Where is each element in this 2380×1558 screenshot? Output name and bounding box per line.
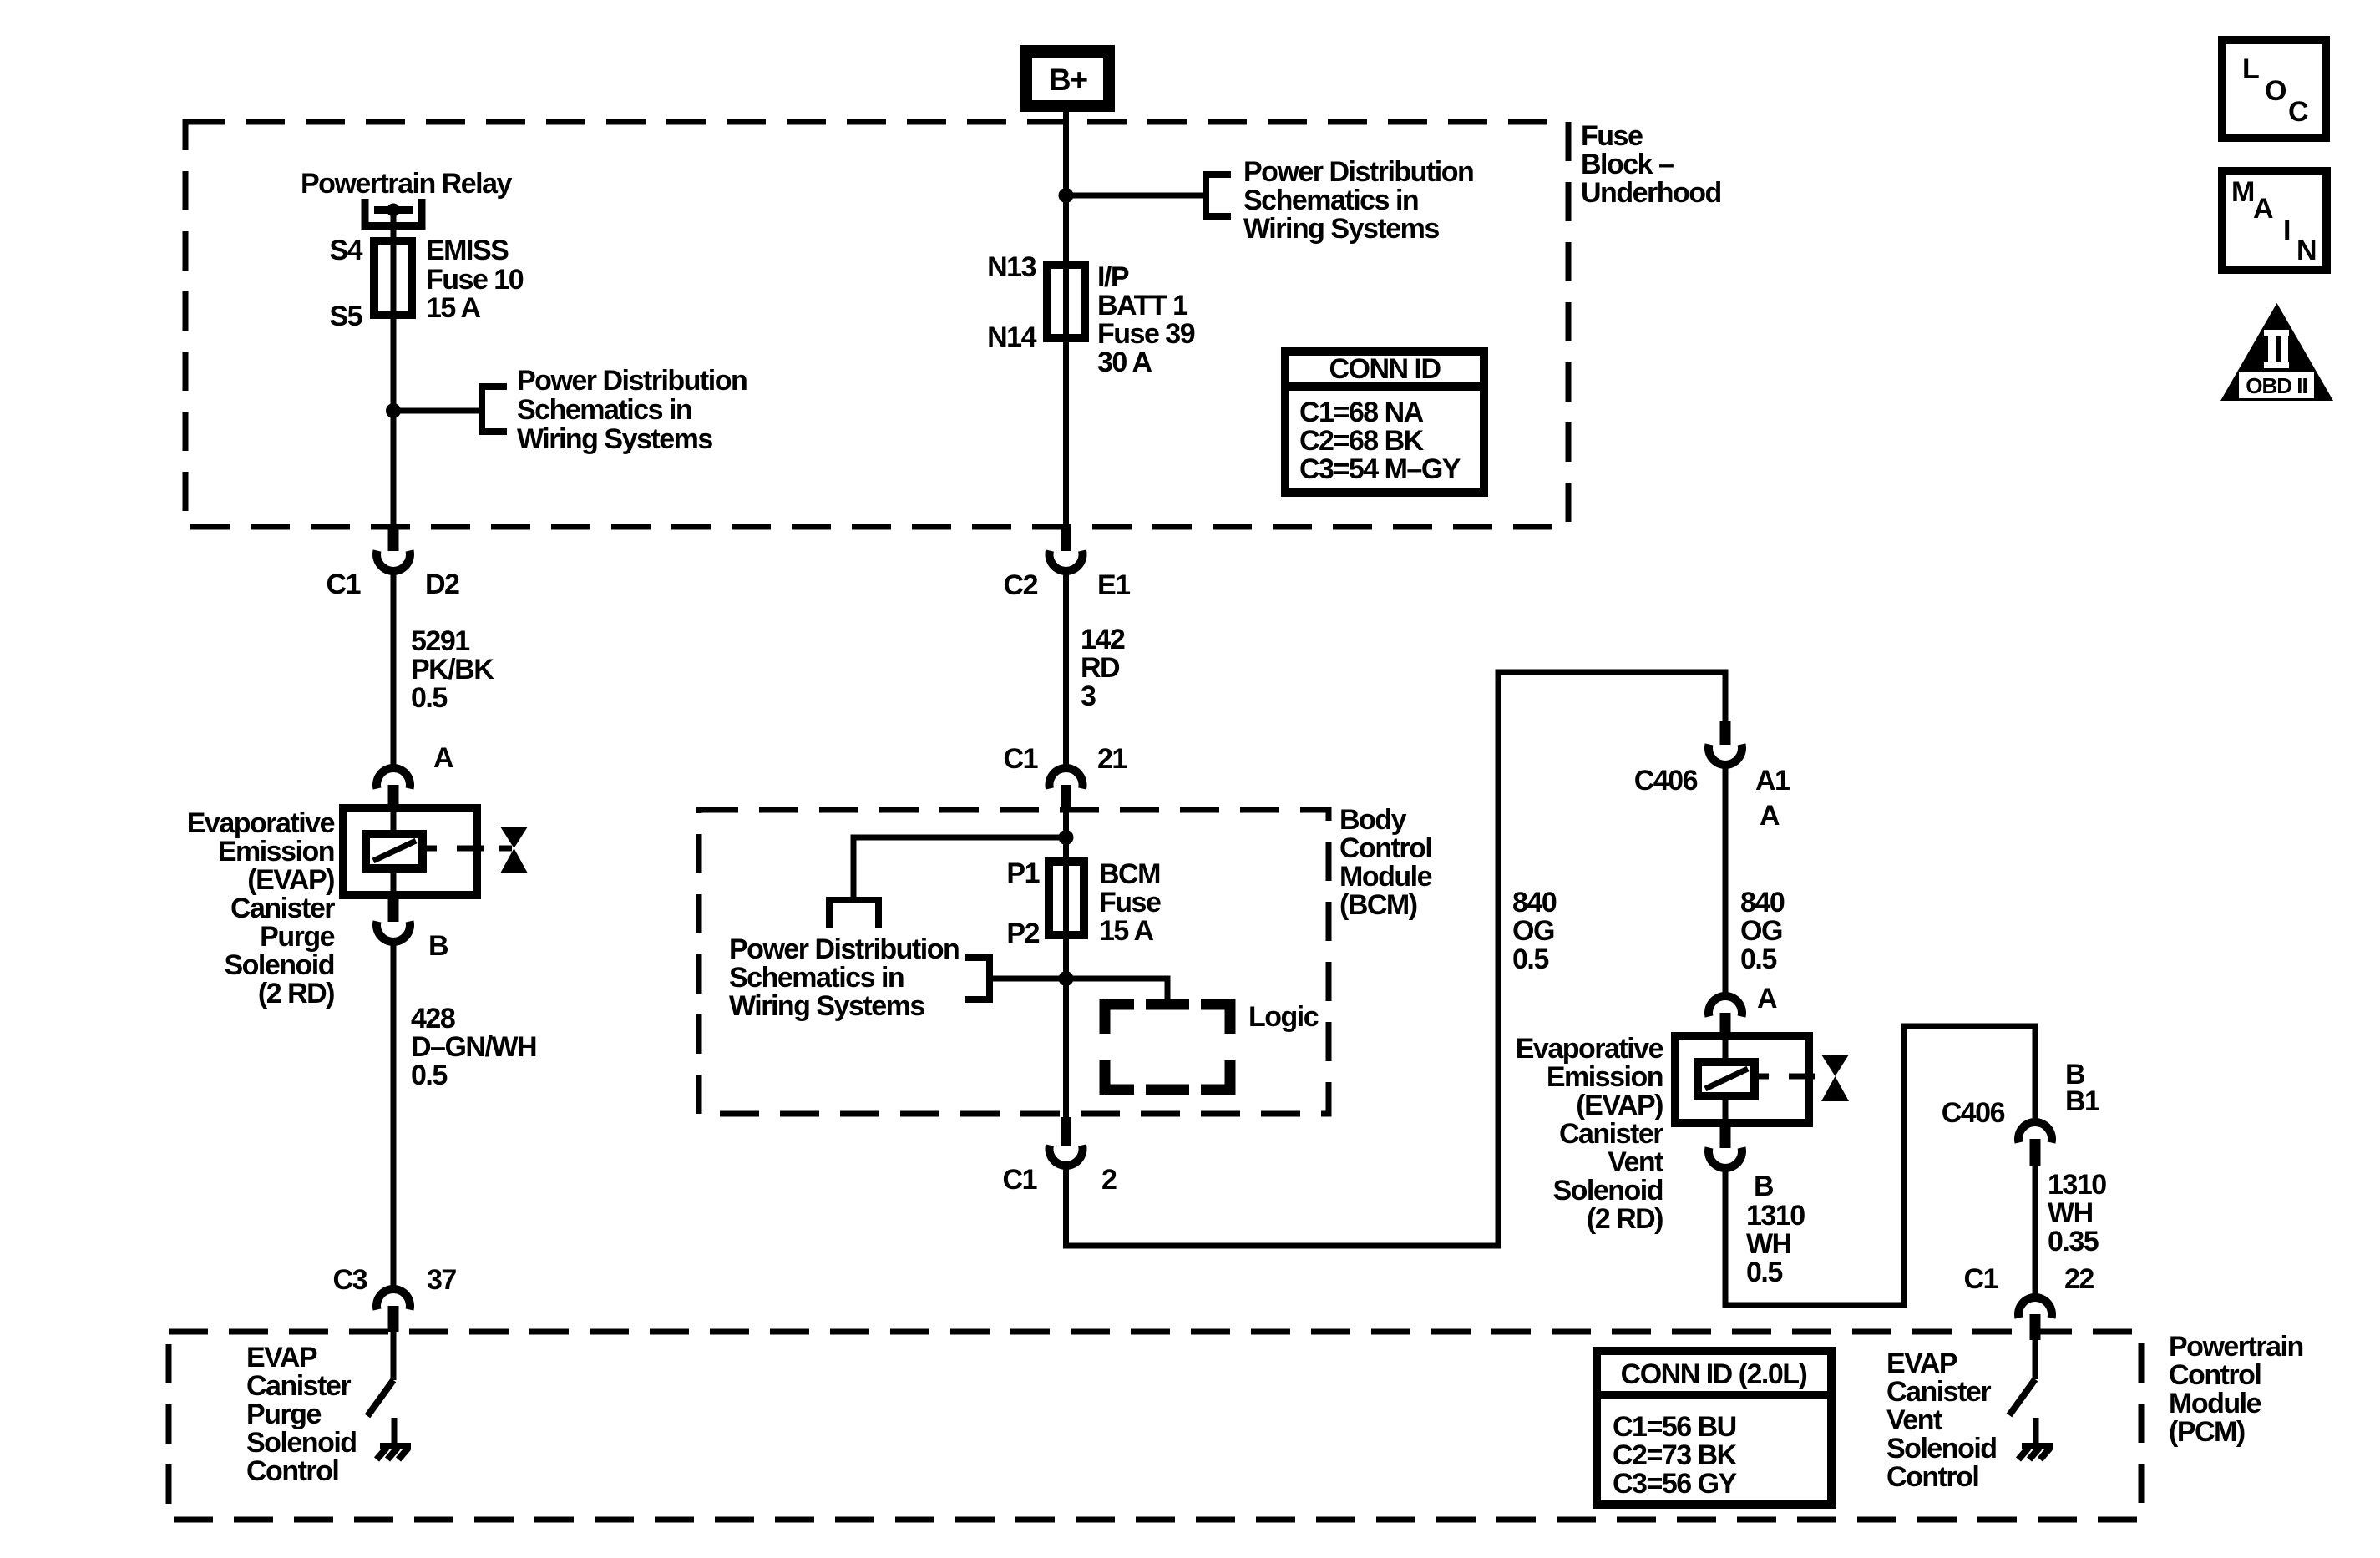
label wire 428 D-GN/WH 0.5 <box>411 1003 536 1091</box>
connector terminal A at purge solenoid <box>377 768 410 810</box>
connector C406 pin B1 <box>2018 1122 2052 1166</box>
svg-text:Fuse 10: Fuse 10 <box>426 264 524 296</box>
connector C406 pin A1 <box>1709 721 1742 765</box>
svg-text:Schematics in: Schematics in <box>729 962 904 994</box>
svg-text:Powertrain Relay: Powertrain Relay <box>301 168 512 200</box>
table CONN ID (2.0L) (PCM) <box>1597 1351 1831 1505</box>
svg-text:(EVAP): (EVAP) <box>1576 1090 1663 1121</box>
svg-text:C1: C1 <box>327 569 361 600</box>
svg-text:WH: WH <box>1746 1228 1791 1260</box>
svg-text:(BCM): (BCM) <box>1339 889 1417 921</box>
svg-text:Solenoid: Solenoid <box>224 949 334 981</box>
svg-text:Canister: Canister <box>230 893 335 924</box>
fork reference symbol (BCM internal) <box>829 897 879 928</box>
svg-text:A1: A1 <box>1755 765 1790 797</box>
svg-text:EVAP: EVAP <box>1886 1348 1957 1379</box>
svg-text:C: C <box>2288 96 2308 128</box>
svg-text:(2 RD): (2 RD) <box>258 978 334 1009</box>
svg-text:BATT 1: BATT 1 <box>1097 290 1187 321</box>
wire B+ to I/P fuse <box>1063 112 1069 524</box>
PCM box Powertrain Control Module <box>169 1332 2141 1520</box>
svg-text:N13: N13 <box>987 251 1036 283</box>
svg-text:A: A <box>1760 800 1780 832</box>
svg-text:CONN ID (2.0L): CONN ID (2.0L) <box>1621 1358 1807 1390</box>
svg-text:Control: Control <box>1886 1461 1978 1493</box>
label BCM Fuse 15 A <box>1099 858 1161 947</box>
switch EVAP Canister Vent Solenoid Control driver <box>2009 1340 2035 1415</box>
svg-text:Power Distribution: Power Distribution <box>1243 156 1473 188</box>
label Power Distribution Schematics in Wiring Systems (BCM) <box>729 933 959 1022</box>
connector terminal A at vent solenoid <box>1709 996 1742 1036</box>
svg-text:Canister: Canister <box>1559 1118 1663 1150</box>
label Body Control Module (BCM) <box>1339 804 1432 921</box>
wire 428 D-GN/WH 0.5 <box>391 940 397 1287</box>
svg-text:Module: Module <box>1339 861 1432 893</box>
svg-text:Wiring Systems: Wiring Systems <box>1243 213 1439 245</box>
svg-text:S5: S5 <box>329 301 362 332</box>
svg-text:0.5: 0.5 <box>1740 943 1776 975</box>
svg-text:RD: RD <box>1081 652 1120 684</box>
svg-text:C3=56 GY: C3=56 GY <box>1613 1468 1738 1500</box>
svg-text:BCM: BCM <box>1099 858 1160 890</box>
wire junction to off-page bracket (BCM) <box>990 976 1066 982</box>
label Powertrain Control Module (PCM) <box>2169 1331 2303 1448</box>
node junction below EMISS fuse <box>386 403 401 418</box>
switch EVAP Canister Purge Solenoid Control driver <box>367 1332 393 1416</box>
svg-text:37: 37 <box>427 1264 456 1296</box>
svg-text:A: A <box>1757 983 1777 1014</box>
wire 1310 WH 0.5 vent solenoid to C406 B1 <box>1725 1026 2035 1305</box>
svg-text:0.5: 0.5 <box>1512 943 1548 975</box>
svg-text:P1: P1 <box>1006 857 1039 889</box>
svg-text:Emission: Emission <box>1547 1061 1663 1093</box>
legend MAIN box <box>2222 171 2327 270</box>
svg-text:M: M <box>2231 176 2254 208</box>
svg-text:C1: C1 <box>1004 743 1038 775</box>
relay Powertrain Relay contact symbol <box>365 199 422 226</box>
svg-text:A: A <box>433 742 453 774</box>
svg-text:Wiring Systems: Wiring Systems <box>729 990 924 1022</box>
svg-text:0.35: 0.35 <box>2048 1226 2099 1257</box>
label EMISS Fuse 10 15 A <box>426 235 524 324</box>
svg-text:OBD II: OBD II <box>2246 373 2307 398</box>
off-page reference bracket (B+) <box>1206 171 1231 220</box>
ground (purge driver) <box>377 1418 411 1459</box>
svg-text:Solenoid: Solenoid <box>1552 1175 1663 1206</box>
svg-text:Power Distribution: Power Distribution <box>729 933 959 965</box>
label I/P BATT 1 Fuse 39 30 A <box>1097 261 1195 378</box>
svg-text:Solenoid: Solenoid <box>246 1427 357 1459</box>
connector C1 pin 21 into BCM <box>1050 768 1083 812</box>
svg-text:Canister: Canister <box>246 1370 351 1402</box>
svg-text:C3=54 M–GY: C3=54 M–GY <box>1299 453 1461 485</box>
solenoid EVAP Canister Vent Solenoid (2 RD) <box>1675 1036 1815 1123</box>
svg-text:428: 428 <box>411 1003 455 1034</box>
svg-text:Fuse: Fuse <box>1099 887 1161 918</box>
fuse block box Fuse Block - Underhood <box>185 122 1568 527</box>
wire BCM C1 2 to C406 A1 (840 OG) <box>1066 672 1726 1246</box>
connector C1 pin 22 into PCM <box>2018 1297 2052 1340</box>
svg-text:C2=68 BK: C2=68 BK <box>1299 425 1425 457</box>
svg-text:C1=56 BU: C1=56 BU <box>1613 1411 1736 1443</box>
connector C1 pin 2 below BCM <box>1050 1117 1083 1166</box>
svg-text:PK/BK: PK/BK <box>411 654 494 685</box>
wire junction to off-page bracket <box>393 408 482 414</box>
svg-text:1310: 1310 <box>1746 1200 1805 1232</box>
svg-text:Vent: Vent <box>1886 1404 1942 1436</box>
svg-text:0.5: 0.5 <box>1746 1257 1782 1288</box>
svg-text:(PCM): (PCM) <box>2169 1416 2245 1448</box>
svg-text:C1: C1 <box>1964 1263 1998 1295</box>
solenoid EVAP Canister Purge Solenoid (2 RD) <box>343 808 512 895</box>
svg-text:C2=73 BK: C2=73 BK <box>1613 1439 1738 1471</box>
svg-text:15 A: 15 A <box>1099 915 1154 947</box>
svg-text:I: I <box>2283 215 2290 246</box>
label wire 840 OG 0.5 (left run) <box>1512 887 1557 975</box>
svg-text:Powertrain: Powertrain <box>2169 1331 2303 1363</box>
svg-text:Purge: Purge <box>246 1399 321 1430</box>
svg-text:840: 840 <box>1512 887 1557 918</box>
label wire 840 OG 0.5 (right run) <box>1740 887 1785 975</box>
svg-text:Logic: Logic <box>1248 1001 1319 1033</box>
svg-text:B+: B+ <box>1049 63 1088 97</box>
svg-text:C2: C2 <box>1004 569 1038 601</box>
connector C1 pin D2 (purge circuit) <box>377 524 410 571</box>
svg-text:OG: OG <box>1512 915 1554 947</box>
svg-text:Wiring Systems: Wiring Systems <box>517 423 712 455</box>
svg-text:A: A <box>2253 193 2273 225</box>
svg-text:WH: WH <box>2048 1197 2093 1229</box>
svg-text:B: B <box>1754 1171 1774 1202</box>
fuse BCM Fuse 15 A <box>1049 862 1084 935</box>
svg-text:L: L <box>2242 53 2259 85</box>
BCM box Body Control Module <box>699 810 1329 1114</box>
valve symbol (vent solenoid) <box>1821 1055 1849 1101</box>
fuse EMISS Fuse 10 15 A <box>374 241 412 315</box>
node junction above BCM fuse <box>1059 830 1074 845</box>
off-page reference bracket (BCM) <box>965 954 990 1003</box>
svg-text:21: 21 <box>1097 743 1127 775</box>
svg-text:1310: 1310 <box>2048 1169 2106 1201</box>
node junction below B+ <box>1059 188 1074 203</box>
svg-text:D2: D2 <box>425 569 459 600</box>
fuse I/P BATT 1 Fuse 39 30 A <box>1047 265 1085 338</box>
svg-text:Vent: Vent <box>1608 1146 1663 1178</box>
wire 1310 WH 0.35 to PCM <box>2033 1166 2038 1295</box>
svg-text:N14: N14 <box>987 321 1036 353</box>
wire junction to off-page bracket (B+) <box>1066 193 1207 199</box>
label Fuse Block - Underhood <box>1581 120 1721 209</box>
ground (vent driver) <box>2018 1418 2053 1459</box>
svg-text:S4: S4 <box>329 235 362 266</box>
label Evaporative Emission (EVAP) Canister Purge Solenoid (2 RD) <box>187 807 336 1009</box>
svg-text:Module: Module <box>2169 1388 2261 1419</box>
svg-text:N: N <box>2296 235 2316 266</box>
svg-text:2: 2 <box>1101 1164 1117 1196</box>
connector terminal B below vent solenoid <box>1709 1123 1742 1168</box>
svg-text:P2: P2 <box>1006 918 1039 949</box>
connector terminal B below purge solenoid <box>377 895 410 942</box>
svg-text:Fuse 39: Fuse 39 <box>1097 318 1195 350</box>
svg-text:Canister: Canister <box>1886 1376 1991 1408</box>
power symbol B+ <box>1020 45 1115 112</box>
svg-text:22: 22 <box>2064 1263 2094 1295</box>
svg-text:Control: Control <box>1339 832 1431 864</box>
svg-text:Power Distribution: Power Distribution <box>517 365 747 397</box>
svg-text:Emission: Emission <box>218 836 334 868</box>
svg-text:O: O <box>2265 75 2286 107</box>
label Power Distribution Schematics in Wiring Systems (fuse block right) <box>1243 156 1473 245</box>
svg-text:(2 RD): (2 RD) <box>1587 1203 1663 1235</box>
svg-text:0.5: 0.5 <box>411 1060 447 1091</box>
svg-text:Body: Body <box>1339 804 1407 836</box>
svg-text:I/P: I/P <box>1097 261 1129 293</box>
label Power Distribution Schematics in Wiring Systems (fuse block left) <box>517 365 747 455</box>
label wire 1310 WH 0.5 <box>1746 1200 1805 1288</box>
svg-text:Control: Control <box>2169 1359 2261 1391</box>
svg-text:(EVAP): (EVAP) <box>247 864 334 896</box>
svg-text:Schematics in: Schematics in <box>1243 185 1418 216</box>
wire B+ down through fuse block to connector C1 <box>391 210 397 524</box>
legend LOC box <box>2222 40 2326 138</box>
svg-text:OG: OG <box>1740 915 1782 947</box>
node junction below BCM fuse <box>1059 971 1074 986</box>
svg-text:30 A: 30 A <box>1097 347 1152 378</box>
svg-text:15 A: 15 A <box>426 292 481 324</box>
svg-text:Solenoid: Solenoid <box>1886 1433 1997 1464</box>
svg-text:C406: C406 <box>1634 765 1698 797</box>
wire 840 OG 0.5 to vent solenoid <box>1723 763 1729 994</box>
table CONN ID (fuse block) <box>1285 352 1484 493</box>
label wire 1310 WH 0.35 <box>2048 1169 2106 1257</box>
svg-text:EMISS: EMISS <box>426 235 509 266</box>
wire 5291 PK/BK 0.5 <box>391 569 397 766</box>
wire junction to Logic box <box>1066 979 1168 1004</box>
svg-text:3: 3 <box>1081 680 1096 712</box>
wire junction to fork reference <box>853 837 1066 900</box>
svg-text:Underhood: Underhood <box>1581 177 1721 209</box>
svg-text:Schematics in: Schematics in <box>517 394 691 426</box>
svg-text:EVAP: EVAP <box>246 1342 317 1373</box>
svg-text:C1=68 NA: C1=68 NA <box>1299 397 1424 428</box>
legend OBD II triangle <box>2220 303 2333 401</box>
valve symbol (purge solenoid) <box>500 827 528 873</box>
svg-text:Evaporative: Evaporative <box>1516 1033 1663 1065</box>
svg-text:Evaporative: Evaporative <box>187 807 335 839</box>
svg-text:E1: E1 <box>1097 569 1130 601</box>
svg-text:Block –: Block – <box>1581 149 1674 180</box>
svg-text:Fuse: Fuse <box>1581 120 1643 152</box>
svg-text:D–GN/WH: D–GN/WH <box>411 1031 536 1063</box>
svg-text:C3: C3 <box>333 1264 367 1296</box>
svg-text:142: 142 <box>1081 624 1125 655</box>
svg-text:C1: C1 <box>1003 1164 1037 1196</box>
label wire 5291 PK/BK 0.5 <box>411 625 494 714</box>
label EVAP Canister Vent Solenoid Control <box>1886 1348 1997 1493</box>
svg-text:5291: 5291 <box>411 625 469 657</box>
Logic box (BCM internal) <box>1105 999 1230 1095</box>
label EVAP Canister Purge Solenoid Control <box>246 1342 357 1487</box>
wire 142 RD 3 <box>1063 569 1069 766</box>
connector C3 pin 37 into PCM <box>377 1289 410 1332</box>
off-page reference bracket left <box>482 383 507 435</box>
svg-text:B1: B1 <box>2065 1085 2099 1117</box>
svg-text:840: 840 <box>1740 887 1785 918</box>
svg-text:B: B <box>428 930 448 962</box>
connector C2 pin E1 <box>1050 524 1083 571</box>
svg-text:Purge: Purge <box>260 921 334 953</box>
label Evaporative Emission (EVAP) Canister Vent Solenoid (2 RD) <box>1516 1033 1664 1235</box>
wire inside BCM from C1 21 to C1 2 <box>1063 812 1069 1117</box>
svg-text:CONN ID: CONN ID <box>1329 353 1441 385</box>
svg-text:0.5: 0.5 <box>411 682 447 714</box>
svg-text:Control: Control <box>246 1455 338 1487</box>
label wire 142 RD 3 <box>1081 624 1125 712</box>
svg-text:C406: C406 <box>1942 1097 2005 1129</box>
